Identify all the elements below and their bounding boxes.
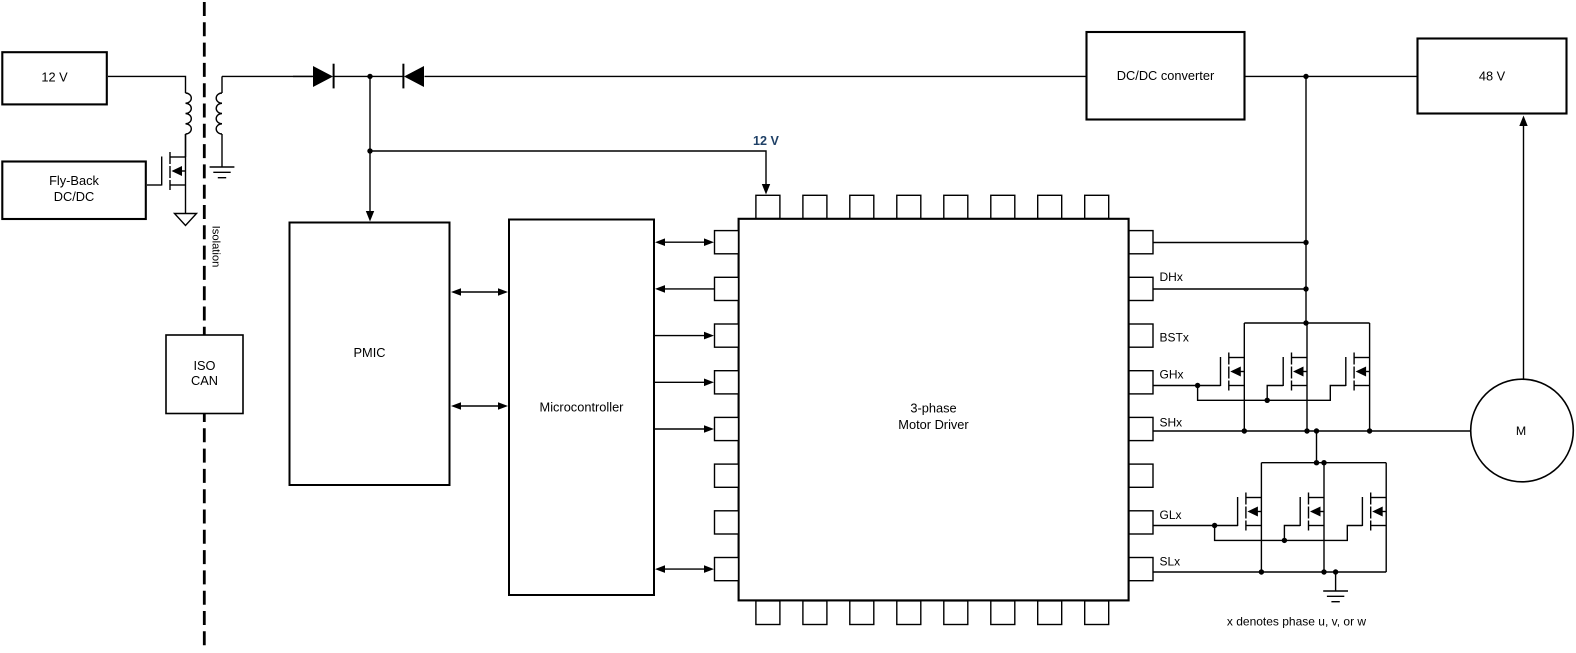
junction Q4 source / SLx	[1259, 569, 1264, 574]
wire node VIN down to PMIC	[369, 76, 371, 212]
arrowhead into PMIC top	[366, 211, 374, 222]
motor driver left pin 5	[715, 417, 739, 440]
svg-text:Microcontroller: Microcontroller	[540, 400, 625, 415]
motor driver left pin 8	[715, 558, 739, 581]
wire SLx rail	[1153, 571, 1386, 573]
junction GLx gate bus	[1212, 523, 1217, 528]
junction gate bus Q2 branch	[1265, 398, 1270, 403]
wire SHx down to low-side drain rail	[1316, 431, 1318, 463]
ground (chassis triangle) below Q7	[175, 214, 197, 226]
signal driver-MCU row 2	[655, 285, 714, 293]
motor driver bottom pin 2	[803, 601, 827, 625]
svg-text:48 V: 48 V	[1479, 69, 1506, 84]
arrowhead into 48V battery bottom	[1519, 116, 1527, 127]
svg-text:Isolation: Isolation	[210, 226, 222, 268]
block DC/DC converter	[1087, 32, 1245, 120]
arrowhead into motor driver top pin	[762, 184, 770, 195]
junction ground / SLx	[1333, 569, 1338, 574]
motor driver top pin 2	[803, 195, 827, 218]
wire diode D1 to diode D2 (node VIN)	[334, 75, 403, 77]
motor driver bottom pin 8	[1085, 601, 1109, 625]
diode D1 (forward, pointing right)	[293, 64, 334, 89]
motor driver right pin 7	[1129, 511, 1153, 534]
svg-text:Motor Driver: Motor Driver	[898, 417, 969, 432]
transistor Q6 (low-side FET w)	[1362, 463, 1386, 572]
ground (secondary side)	[210, 167, 235, 178]
junction DHx / 48V rail	[1303, 286, 1308, 291]
signal MCU-driver row 5	[655, 425, 714, 433]
motor driver right pin 2	[1129, 277, 1153, 300]
wire high-side gate bus	[1198, 386, 1346, 401]
svg-text:DC/DC converter: DC/DC converter	[1117, 68, 1215, 83]
motor driver bottom pin 4	[897, 601, 921, 625]
svg-text:DHx: DHx	[1160, 270, 1183, 284]
svg-text:SLx: SLx	[1160, 554, 1181, 568]
signal MCU-driver row 8 (bidirectional)	[655, 565, 714, 573]
motor driver left pin 7	[715, 511, 739, 534]
svg-text:M: M	[1516, 424, 1526, 438]
block ISO CAN	[166, 335, 243, 414]
wire transformer secondary to diode D1	[222, 76, 313, 93]
motor driver right pin 8	[1129, 558, 1153, 581]
transistor Q7 (fly-back FET)	[162, 134, 186, 214]
transistor Q1 (high-side FET u)	[1221, 323, 1245, 431]
wire high-side drain rail	[1244, 322, 1369, 324]
svg-text:Fly-Back: Fly-Back	[49, 173, 99, 188]
wire motor to 48V battery	[1523, 126, 1525, 380]
wire 12V branch to motor driver VM pin	[370, 151, 766, 185]
motor driver top pin 5	[944, 195, 968, 218]
block Fly-Back DC/DC	[2, 162, 146, 220]
wire low-side drain rail	[1261, 462, 1386, 464]
wire SLx to ground	[1335, 572, 1337, 591]
svg-text:GHx: GHx	[1160, 368, 1184, 382]
signal MCU-driver row 1 (bidirectional)	[655, 238, 714, 246]
junction Q5 source / SLx	[1321, 569, 1326, 574]
block Microcontroller	[509, 220, 654, 596]
svg-text:12 V: 12 V	[41, 70, 68, 85]
transformer primary winding	[186, 93, 192, 134]
junction 12V branch	[367, 148, 372, 153]
motor driver right pin 4	[1129, 371, 1153, 394]
wire primary winding to flyback FET drain	[185, 134, 187, 157]
motor driver left pin 6	[715, 464, 739, 487]
wire DHx to 48V rail	[1153, 288, 1306, 290]
junction 48V rail / drain rail	[1303, 320, 1308, 325]
motor driver bottom pin 7	[1038, 601, 1062, 625]
svg-text:ISO: ISO	[193, 358, 215, 373]
motor driver bottom pin 6	[991, 601, 1015, 625]
motor driver top pin 3	[850, 195, 874, 218]
wire SHx rail to motor	[1153, 430, 1471, 432]
svg-text:CAN: CAN	[191, 373, 218, 388]
ground (power stage)	[1323, 591, 1348, 602]
svg-text:SHx: SHx	[1160, 415, 1183, 429]
junction Q3 source / SHx	[1367, 428, 1372, 433]
wire 48V rail from DC/DC node down	[1305, 76, 1307, 323]
svg-text:GLx: GLx	[1160, 508, 1182, 522]
transistor Q2 (high-side FET v)	[1283, 323, 1307, 431]
junction pin1 / 48V rail	[1303, 240, 1308, 245]
junction Q5 drain / low drain rail	[1321, 460, 1326, 465]
junction GHx gate bus	[1195, 383, 1200, 388]
block PMIC	[290, 223, 450, 486]
diode D2 (reverse, pointing left)	[403, 64, 424, 89]
junction node VIN	[367, 74, 372, 79]
transistor Q3 (high-side FET w)	[1346, 323, 1370, 431]
junction SHx drop to low side	[1314, 428, 1319, 433]
motor driver top pin 7	[1038, 195, 1062, 218]
svg-text:BSTx: BSTx	[1160, 330, 1189, 344]
bus PMIC-Microcontroller (lower)	[451, 402, 508, 410]
motor driver top pin 6	[991, 195, 1015, 218]
motor driver right pin 6	[1129, 464, 1153, 487]
motor driver right pin 3	[1129, 324, 1153, 347]
wire low-side gate bus	[1215, 526, 1363, 541]
svg-text:x denotes phase u, v, or w: x denotes phase u, v, or w	[1227, 615, 1367, 629]
transformer secondary winding	[216, 93, 222, 134]
svg-text:DC/DC: DC/DC	[54, 189, 95, 204]
junction 48V rail at top net	[1303, 74, 1308, 79]
motor driver bottom pin 3	[850, 601, 874, 625]
motor driver right pin 5	[1129, 417, 1153, 440]
svg-text:3-phase: 3-phase	[910, 401, 956, 416]
motor driver left pin 1	[715, 231, 739, 254]
motor driver left pin 4	[715, 371, 739, 394]
transistor Q5 (low-side FET v)	[1300, 463, 1324, 572]
motor driver left pin 3	[715, 324, 739, 347]
transistor Q4 (low-side FET u)	[1238, 463, 1262, 572]
wire Fly-Back DC/DC gate drive	[147, 184, 162, 186]
wire right pin1 to 48V rail	[1153, 242, 1306, 244]
wire GLx to low-side gates	[1153, 525, 1238, 527]
junction Q1 source / SHx	[1242, 428, 1247, 433]
wire GHx to high-side gates	[1153, 385, 1221, 387]
wire DC/DC converter to 48V battery	[1245, 75, 1417, 77]
motor driver right pin 1	[1129, 231, 1153, 254]
svg-text:PMIC: PMIC	[354, 345, 386, 360]
bus PMIC-Microcontroller (upper)	[451, 288, 508, 296]
signal MCU-driver row 3	[655, 332, 714, 340]
motor driver top pin 8	[1085, 195, 1109, 218]
motor driver top pin 4	[897, 195, 921, 218]
block 12 V supply	[2, 52, 107, 104]
junction gate bus Q5 branch	[1282, 538, 1287, 543]
motor driver left pin 2	[715, 277, 739, 300]
wire 12V box to transformer primary	[108, 76, 186, 93]
isolation barrier (dashed line)	[203, 2, 206, 651]
block 48 V battery	[1418, 39, 1567, 114]
motor driver bottom pin 1	[756, 601, 780, 625]
junction Q2 source / SHx	[1304, 428, 1309, 433]
wire secondary winding to ground	[221, 134, 223, 167]
motor driver top pin 1	[756, 195, 780, 218]
motor driver bottom pin 5	[944, 601, 968, 625]
signal MCU-driver row 4	[655, 379, 714, 387]
junction SHx drop / low drain rail	[1314, 460, 1319, 465]
svg-text:12 V: 12 V	[753, 134, 780, 148]
motor M (circle)	[1471, 379, 1574, 482]
block 3-phase Motor Driver	[739, 219, 1129, 601]
wire diode D2 to DC/DC converter	[425, 75, 1087, 77]
